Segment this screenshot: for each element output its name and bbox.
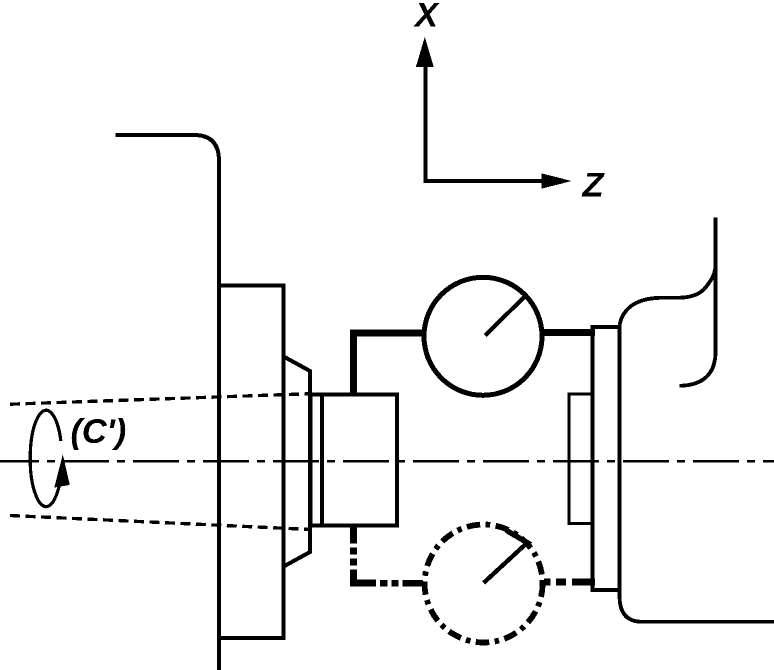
dial indicator bottom rim dash bbox=[506, 530, 530, 544]
dial indicator bottom needle bbox=[484, 542, 528, 583]
dial indicator top needle bbox=[485, 295, 526, 335]
axis Z arrow bbox=[423, 173, 571, 188]
projected cone upper dashed bbox=[10, 394, 311, 405]
spindle axis centerline bbox=[0, 460, 774, 463]
break line hook bbox=[680, 352, 716, 386]
rotation symbol ellipse bbox=[30, 410, 61, 506]
rotation arrowhead bbox=[54, 455, 70, 488]
top bracket arm right bbox=[542, 329, 595, 336]
break line vertical bbox=[714, 255, 718, 355]
phantom bracket bottom left arm bbox=[380, 580, 423, 587]
chuck faceplate bbox=[219, 286, 284, 638]
tailstock body bbox=[620, 218, 774, 622]
dial indicator top circle bbox=[424, 277, 542, 395]
mandrel flange line bbox=[320, 394, 324, 525]
axis X arrow bbox=[416, 37, 434, 182]
label Z bbox=[582, 173, 605, 197]
phantom bracket bottom right arm bbox=[544, 579, 595, 586]
label (C') bbox=[72, 418, 126, 450]
indicator mount plate bbox=[593, 327, 620, 590]
test mandrel bbox=[311, 394, 398, 525]
headstock outline bbox=[115, 135, 219, 670]
taper adapter bbox=[284, 357, 310, 567]
phantom bracket bottom left stem bbox=[353, 527, 376, 583]
top bracket arm left bbox=[353, 333, 423, 396]
projected cone lower dashed bbox=[10, 516, 311, 530]
label X bbox=[413, 3, 439, 27]
faceplate disc right bbox=[569, 394, 593, 524]
dial indicator bottom circle bbox=[425, 525, 543, 643]
